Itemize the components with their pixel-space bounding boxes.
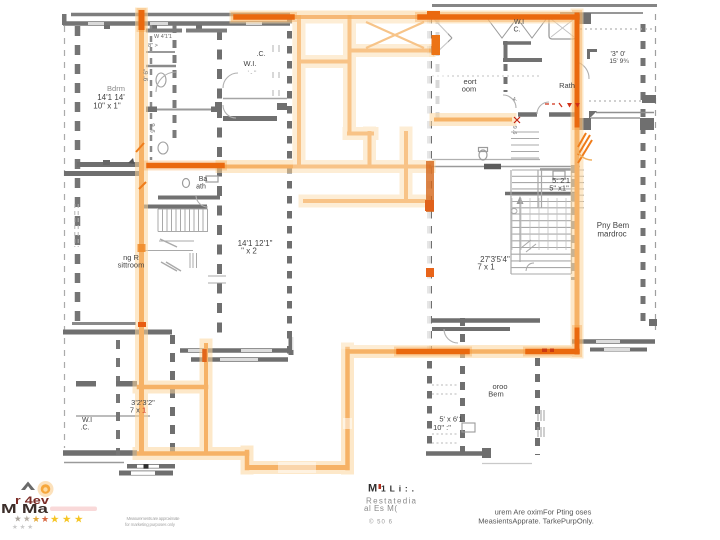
amber h y352 base (351, 349, 577, 354)
mls logo red mark (379, 484, 382, 489)
stairs2 treads block A (512, 170, 584, 208)
wall chunk bedroom3 corner (482, 448, 491, 458)
svg-text:al Es M(: al Es M( (364, 504, 397, 513)
svg-text:9' 6: 9' 6 (151, 123, 157, 133)
stairs2 arrow (519, 200, 521, 262)
bright orange west band top (139, 13, 145, 27)
amber stair cross (366, 22, 424, 48)
bright orange hall wall (149, 163, 222, 169)
svg-text:10" :": 10" :" (433, 423, 451, 432)
wall center vertical dashed (287, 16, 292, 358)
stairs2 curve (526, 263, 534, 271)
door arc bedroom1 (223, 73, 238, 88)
svg-text:Measurements are approximate: Measurements are approximate (127, 516, 180, 521)
porch step bar 2 (119, 471, 173, 476)
amber east band (575, 125, 580, 330)
white wash halo right of center wall (432, 8, 448, 130)
svg-text:mardroc: mardroc (597, 230, 626, 239)
wall right wing south (572, 339, 655, 344)
wall right wing south second (590, 348, 647, 352)
laundry shelf line 1 (146, 51, 175, 53)
svg-text:'3" 0': '3" 0' (611, 51, 626, 58)
svg-text:© 50 6: © 50 6 (369, 519, 393, 526)
amber top wall washed segment (292, 15, 420, 19)
white wash over center (orange plan interior) (292, 16, 431, 350)
door arc hall (444, 329, 458, 343)
bright orange junction top (427, 11, 440, 19)
wall stairs1 upper (158, 196, 220, 200)
svg-text:M1Li:.: M1Li:. (368, 483, 414, 495)
wall bottom-left south (63, 450, 137, 456)
amber h y166 (222, 165, 429, 169)
wall bottom-left block upper thin (72, 322, 136, 325)
red triangle bath2 b (575, 103, 580, 108)
amber v x347 (345, 349, 350, 468)
hall short lines (208, 276, 226, 283)
logo house triangle (21, 482, 35, 491)
wall living south upper (180, 348, 291, 353)
door arc bath2 (537, 102, 549, 114)
right window triple 2 (538, 427, 544, 437)
svg-text:5" x1": 5" x1" (549, 184, 569, 193)
bedroom3 closet small rect (462, 423, 475, 432)
svg-text:★: ★ (14, 514, 22, 524)
porch step inner white 2 (131, 471, 155, 475)
bedroom3 tread dotted rows (432, 385, 458, 443)
stairs2 treads block B (511, 214, 571, 274)
svg-text:' - '': ' - '' (248, 71, 257, 77)
stairs1 rails (158, 209, 208, 232)
amber door diag 1 (136, 143, 144, 152)
door arc bedroom2 (503, 95, 516, 108)
wall nub a (104, 25, 110, 29)
deck dotted lower (589, 100, 643, 102)
amber vertical x349 (348, 17, 352, 133)
amber west band (139, 26, 144, 453)
svg-text:★: ★ (74, 514, 84, 526)
logo stars row (14, 514, 84, 526)
amber gap on v347 (343, 418, 352, 429)
laundry wall top (146, 29, 227, 33)
laundry wall east dashed (173, 25, 177, 145)
logo flame (41, 484, 51, 494)
wall bedroom2 left dashed (436, 16, 440, 118)
svg-text:Rath: Rath (559, 81, 575, 90)
amber bottom gap lightener (278, 462, 316, 473)
bright orange east band upper (575, 15, 580, 125)
deck dotted upper (580, 28, 654, 30)
svg-text:★: ★ (50, 514, 60, 526)
svg-text:Ba: Ba (199, 176, 208, 183)
svg-text:ath: ath (196, 184, 206, 191)
stairs2 treads upper (511, 132, 539, 158)
LOGO bottom-center (364, 483, 417, 526)
wall wic1 bottom thin (223, 98, 287, 100)
bath2 tub (549, 17, 576, 39)
svg-text:" x 2: " x 2 (241, 247, 257, 256)
property line right thin dashed (655, 14, 657, 330)
svg-text:★: ★ (23, 514, 31, 524)
amber h y387 (139, 385, 206, 390)
svg-text:★: ★ (41, 514, 49, 524)
window gaps top-left wall (88, 22, 262, 25)
svg-text:W.I: W.I (82, 417, 92, 424)
laundry thin wall west dashed (150, 25, 153, 160)
wall bedroom3 right dashed (460, 318, 465, 455)
amber v x406 (404, 133, 408, 201)
svg-text:oom: oom (462, 85, 477, 94)
wall top-left main (63, 21, 290, 26)
svg-text:.C.: .C. (81, 425, 90, 432)
amber door hatch east (578, 133, 592, 163)
wall chunk deck top-left (579, 13, 591, 24)
wash over amber in overlay interior (293, 19, 429, 349)
GRAY PLAN (63, 6, 657, 463)
closet bifold doors zigzag (487, 18, 547, 38)
svg-text:4.: 4. (513, 97, 518, 103)
wall bath2 lower (505, 192, 576, 196)
wall wic2 bottom (503, 58, 542, 62)
window gaps living south upper (188, 349, 272, 352)
wall wic2 left (504, 41, 508, 62)
svg-text:8" >: 8" > (148, 43, 158, 49)
property line left thin dashed (64, 26, 66, 448)
svg-text:Bem: Bem (488, 390, 503, 399)
wall hall west of stairs (77, 162, 139, 167)
wall family south (432, 318, 540, 323)
svg-text:10" x 1": 10" x 1" (93, 102, 121, 111)
wall bottom-left block top (63, 330, 172, 335)
red x mark (514, 117, 520, 123)
amber vertical x299 (297, 17, 301, 166)
bedroom2 dotted line (432, 75, 540, 77)
wall chunk wic1 left (215, 102, 222, 107)
wall bedroom3 south (426, 451, 482, 456)
stairs1 run lines (144, 241, 194, 251)
red-orange tick west band (138, 322, 146, 327)
bright orange h y352 right segment (528, 349, 577, 355)
AMBER PLAN core (139, 17, 577, 468)
bath1 toilet (183, 179, 190, 188)
bath1 sink (206, 176, 218, 182)
powder door arc (156, 72, 176, 92)
wall chunk right wing end (649, 319, 657, 326)
svg-text:★: ★ (32, 514, 40, 524)
laundry shelf line 2 (146, 65, 176, 68)
red triangle bath2 a (567, 103, 572, 108)
bright orange top wall left segment (236, 14, 292, 20)
wall center-left vertical dashed (217, 30, 222, 342)
amber door diag 2 (139, 182, 146, 189)
wall chunk mid hall (484, 164, 501, 170)
wall wic2 left dashes (504, 64, 508, 92)
stairs1 treads (158, 209, 208, 232)
logo pink smear (50, 507, 97, 512)
AMBER PLAN halo (139, 14, 577, 468)
porch step inner white 1 (137, 465, 159, 468)
bright orange chunk on center wall (425, 200, 434, 211)
stairs2 baluster grid (512, 198, 566, 250)
window gap right wing south (596, 340, 620, 343)
amber step v (245, 452, 250, 468)
wc tank (479, 148, 488, 152)
red marks bath2 (545, 103, 562, 107)
BRIGHT ORANGE highlights halo (142, 13, 578, 352)
wall bath2 inner thin (540, 168, 572, 171)
red marks on bright h (542, 349, 547, 353)
wall top-right rail lower (560, 12, 643, 14)
wall arrow mark (128, 158, 135, 164)
deck edge thin (596, 112, 654, 114)
wall mid-right vertical dashed (427, 16, 432, 450)
svg-text:urem Are oximFor Pting oses: urem Are oximFor Pting oses (495, 508, 592, 517)
wall bottom-right dashed (535, 358, 540, 455)
wall wic2 top (503, 41, 531, 45)
svg-text:7 x 1: 7 x 1 (477, 263, 495, 272)
svg-text:.C.: .C. (257, 51, 266, 58)
amber v x206 (204, 345, 208, 453)
wall bath2 south segments (518, 112, 577, 117)
wall chunk deck right (642, 95, 656, 103)
bright orange chunk lower center wall (426, 268, 434, 277)
bright orange h y352 left segment (399, 349, 467, 355)
wall top-left upper (71, 13, 290, 17)
svg-text:MeasientsApprate. TarkePurpOnl: MeasientsApprate. TarkePurpOnly. (478, 517, 594, 526)
wall corner center (289, 337, 294, 355)
window gap living south lower (220, 358, 258, 361)
amber h y201 (305, 199, 424, 203)
window gap right wing second (604, 348, 630, 351)
wall wic1 south thick (223, 116, 277, 121)
door arc wic1 (223, 105, 236, 118)
wall chunk deck mid L vert (587, 49, 590, 59)
hall wall y109 thin (146, 109, 222, 111)
wall nub hall (103, 160, 110, 165)
wall nub b (151, 25, 157, 29)
bright orange top wall right segment (420, 14, 577, 20)
wall right wing east dashed (641, 24, 646, 330)
stairs1 arrows (160, 239, 181, 271)
stairs2 arrowhead (517, 196, 524, 204)
logo flame core (43, 487, 47, 491)
amber bottom h left (139, 451, 247, 456)
logo flame glow (38, 481, 54, 497)
amber h y61 (299, 60, 346, 64)
bright halo paths (142, 13, 578, 352)
stairs2 knob (511, 209, 517, 214)
door arc bath1 (196, 196, 208, 207)
wall top-right rail upper (432, 4, 657, 7)
amber v x369 (368, 133, 372, 166)
wall stairs1 lower (144, 205, 207, 209)
logo house inner (25, 486, 31, 490)
left wall window lines (75, 204, 78, 247)
right window triple 1 (538, 410, 544, 421)
wic1 closet rod marks (273, 45, 279, 96)
powder toilet upper (156, 73, 166, 87)
svg-text:W 4'1'1: W 4'1'1 (154, 34, 172, 40)
amber h y50 (353, 49, 429, 53)
stairs2 diagonal marks (521, 240, 536, 252)
amber halo paths (139, 14, 577, 468)
powder toilet lower (158, 142, 168, 154)
amber h y133 (349, 132, 372, 136)
porch step dark dot (144, 464, 149, 469)
wall left exterior dashed (75, 26, 81, 332)
wall chunk deck bottom-right (640, 118, 654, 130)
bedroom2 corner diagonals (433, 18, 452, 56)
bright orange block right of center wall (432, 35, 441, 55)
wall chunk wic1 corner (277, 103, 287, 110)
svg-text:7 x 1: 7 x 1 (130, 406, 146, 415)
wall family south second (432, 327, 510, 331)
svg-text:15' 9¾: 15' 9¾ (609, 58, 629, 65)
svg-text:sittroom: sittroom (118, 261, 145, 270)
hall line mid with chunks (430, 166, 580, 168)
svg-text:W.I.: W.I. (244, 59, 257, 68)
faint line bottom center (482, 463, 532, 465)
wall corner connector top-left (62, 14, 67, 25)
amber door arc east (578, 152, 592, 160)
porch step bar 1 (127, 464, 175, 469)
LOGO bottom-left (1, 481, 97, 531)
deck lower wall thin (591, 117, 640, 119)
stairs1 lower verticals (190, 253, 197, 268)
wall chunk deck bottom-left (579, 118, 591, 130)
svg-text:C.: C. (514, 27, 521, 34)
bright orange east band lower (575, 330, 580, 352)
wall bottom-left east dashed (170, 335, 175, 458)
bright spot west band (138, 244, 146, 252)
svg-text:★ ★ ★: ★ ★ ★ (12, 523, 33, 531)
dark orange tint on center wall (426, 161, 434, 212)
wall chunk deck mid L (587, 49, 597, 52)
wc toilet (479, 150, 487, 160)
svg-text:for marketing purposes only: for marketing purposes only (125, 522, 176, 527)
wall hall lower-left (64, 171, 139, 176)
hall wall y109 chunk left (146, 107, 157, 113)
bright tick on amber v206 (202, 349, 207, 362)
wall nub c (196, 25, 202, 29)
wall chunk wic3 right (116, 381, 137, 387)
red mark 2 on bright h (550, 349, 554, 353)
hall thin line mid (432, 159, 540, 161)
svg-text:W.I: W.I (514, 19, 524, 26)
stairwell wall dashes under amber band (571, 165, 575, 280)
bath2 tub cross (551, 19, 574, 37)
amber bottom h right (248, 465, 345, 470)
amber h y119 (436, 118, 510, 122)
bath2 sink (553, 171, 565, 179)
svg-text:Bdrm: Bdrm (107, 84, 125, 93)
wall chunk wic3 left (76, 381, 96, 387)
deck triangle marker (589, 111, 597, 119)
wall wic3 thin shelf (76, 415, 150, 417)
svg-text:★: ★ (62, 514, 72, 526)
wall wic3 mid dashed (116, 340, 120, 455)
stairs2 rails (511, 170, 572, 274)
wall living south lower (191, 357, 288, 362)
svg-text:9' 6": 9' 6" (143, 68, 150, 81)
svg-text:9' 6: 9' 6 (513, 126, 519, 135)
hall wall y109 chunk right (211, 107, 222, 113)
laundry wall top gap (182, 29, 186, 33)
porch edge thin (64, 462, 124, 464)
door arc deck (577, 62, 589, 79)
